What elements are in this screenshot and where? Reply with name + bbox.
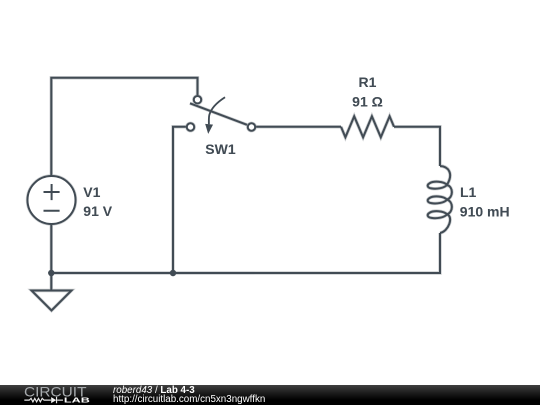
wire resistor R1 to inductor L1 top: [394, 127, 440, 166]
wire switch common to resistor R1: [256, 126, 341, 128]
switch SW1 right terminal: [248, 123, 255, 130]
wire V1 bottom: [50, 225, 52, 274]
CircuitLab logo: [0, 385, 108, 405]
node junction dot at V1 / ground: [48, 270, 54, 276]
ground symbol: [32, 273, 72, 311]
svg-text:V1: V1: [83, 184, 100, 200]
switch SW1 left terminal: [187, 123, 194, 130]
wire inductor L1 bottom to bottom rail to V1 bottom: [51, 233, 440, 273]
inductor L1 coil: [428, 166, 452, 233]
resistor R1 zigzag: [341, 116, 394, 137]
svg-text:LAB: LAB: [64, 396, 90, 404]
footer text: [113, 386, 265, 405]
svg-text:SW1: SW1: [205, 141, 236, 157]
node junction dot at switch branch: [170, 270, 176, 276]
voltage source V1: [28, 176, 76, 224]
switch SW1: [187, 96, 255, 134]
wire switch left throw down to bottom rail: [173, 127, 186, 273]
switch SW1 actuation arrow: [209, 97, 225, 124]
switch SW1 blade: [190, 103, 247, 125]
svg-text:L1: L1: [460, 184, 477, 200]
svg-text:91 V: 91 V: [83, 203, 112, 219]
svg-text:91 Ω: 91 Ω: [352, 94, 383, 110]
switch SW1 top terminal: [194, 96, 201, 103]
svg-text:910 mH: 910 mH: [460, 203, 510, 219]
wire top-left: V1 top to switch top terminal: [51, 78, 197, 176]
footer bar: [0, 385, 540, 405]
svg-text:R1: R1: [359, 74, 377, 90]
